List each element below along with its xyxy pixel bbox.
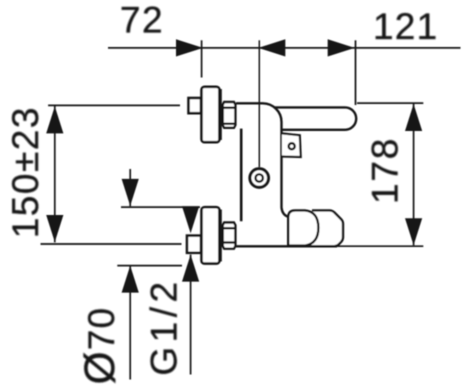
latch clip hole: [289, 143, 295, 149]
extension line Ø70 bottom: [117, 265, 182, 267]
dimension Ø70 label: [77, 307, 124, 385]
extension line 178 top: [357, 102, 423, 104]
faucet body outline: [236, 103, 288, 217]
spout collar: [288, 210, 318, 245]
body left edge: [240, 129, 243, 222]
extension line 150 top: [48, 104, 180, 106]
svg-text:G1/2: G1/2: [144, 277, 185, 375]
extension line wall plane: [201, 40, 203, 77]
top union nut: [223, 102, 236, 128]
svg-text:150±23: 150±23: [5, 106, 46, 238]
arrow G1/2 up: [182, 255, 199, 282]
handle lever: [275, 107, 357, 129]
extension line 150 bottom: [41, 243, 182, 245]
svg-text:178: 178: [365, 137, 406, 204]
dimension line Ø70 lower segment: [129, 265, 131, 379]
body bottom edge: [236, 245, 337, 247]
extension line body centre: [258, 40, 260, 167]
dimension G1/2 label: [144, 277, 185, 375]
arrow 121 right: [328, 39, 355, 56]
arrow 150 up: [46, 106, 63, 133]
spout nose: [312, 210, 343, 246]
top flange face edge: [220, 89, 222, 140]
latch clip: [282, 133, 301, 157]
extension line handle end: [355, 40, 357, 105]
bottom inlet nipple: [187, 236, 201, 253]
extension line Ø70 top: [121, 206, 200, 208]
cartridge knob inner: [256, 174, 263, 181]
dimension 150±23 label: [5, 106, 46, 238]
svg-text:72: 72: [120, 0, 164, 41]
arrow G1/2 down: [182, 206, 199, 233]
dimension 178 label: [365, 137, 406, 204]
arrow 178 down: [405, 218, 422, 245]
bottom union nut: [223, 223, 236, 249]
arrow Ø70 down: [122, 179, 139, 206]
dimension line G1/2 upper segment: [190, 208, 192, 213]
arrow 121 left: [258, 39, 285, 56]
dimension 121 label: [373, 6, 438, 47]
bottom nut facet lines: [223, 227, 236, 229]
bottom flange face edge: [220, 210, 222, 262]
cartridge knob outer: [250, 169, 269, 188]
dimension line 150±23: [54, 106, 56, 242]
arrow Ø70 up: [122, 266, 139, 293]
arrow 150 down: [46, 215, 63, 242]
top inlet nipple: [189, 98, 202, 113]
dimension line G1/2 lower segment: [190, 255, 192, 375]
dimension line Ø70 upper segment: [129, 169, 131, 206]
top nut facet lines: [223, 106, 236, 108]
bottom wall flange: [202, 207, 220, 263]
top dimension line: [108, 47, 461, 49]
dimension line 178: [413, 104, 415, 246]
svg-text:Ø70: Ø70: [77, 307, 124, 385]
svg-text:121: 121: [373, 6, 438, 47]
arrow 178 up: [405, 104, 422, 131]
extension line 178 bottom: [336, 245, 423, 247]
arrow 72 right: [176, 39, 203, 56]
dimension 72 label: [120, 0, 164, 41]
top wall flange: [202, 87, 220, 142]
